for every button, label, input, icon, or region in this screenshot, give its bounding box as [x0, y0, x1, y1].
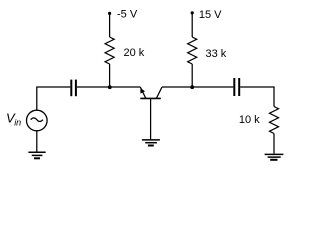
svg-text:in: in — [14, 118, 21, 128]
svg-text:33 k: 33 k — [206, 48, 227, 60]
svg-text:15 V: 15 V — [199, 9, 222, 21]
svg-text:10 k: 10 k — [239, 114, 260, 126]
svg-text:-5 V: -5 V — [117, 9, 138, 21]
svg-text:20 k: 20 k — [124, 47, 145, 59]
